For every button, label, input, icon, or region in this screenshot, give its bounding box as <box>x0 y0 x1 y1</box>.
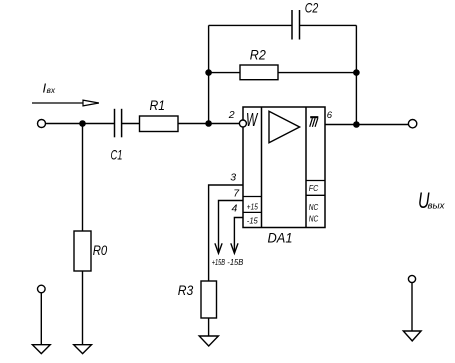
ground (bottom right) <box>403 331 421 341</box>
wire (R2 left) <box>209 72 240 74</box>
resistor R0 <box>74 231 91 271</box>
ground (R0) <box>74 345 92 354</box>
svg-text:R3: R3 <box>178 282 194 298</box>
svg-text:3: 3 <box>230 171 236 183</box>
svg-text:-15В: -15В <box>227 257 243 267</box>
op-amp left column cell lines <box>243 197 262 213</box>
label -15 (supply cell) <box>247 216 258 226</box>
op-amp right column cell lines <box>306 181 325 196</box>
label R3 <box>178 282 194 298</box>
input terminal <box>38 120 46 128</box>
svg-text:C1: C1 <box>111 147 123 163</box>
svg-text:2: 2 <box>228 109 235 121</box>
label NC (lower) <box>309 214 319 224</box>
svg-text:NC: NC <box>309 202 319 212</box>
node (output junction) <box>353 121 360 128</box>
svg-text:-15: -15 <box>247 216 258 226</box>
svg-text:+15: +15 <box>247 201 258 211</box>
svg-text:W: W <box>246 110 259 130</box>
label Ivx <box>43 81 57 96</box>
node B (summing junction) <box>205 120 212 127</box>
ground (bottom left) <box>32 345 50 354</box>
output symbol m <box>310 117 319 127</box>
common terminal (bottom right) <box>408 275 415 282</box>
capacitor C1 <box>115 109 122 138</box>
svg-text:+15В: +15В <box>212 257 226 267</box>
svg-text:NC: NC <box>309 214 319 224</box>
label R2 <box>250 46 266 62</box>
wire <box>411 283 413 331</box>
pin 4 wire <box>234 218 243 254</box>
svg-text:R0: R0 <box>93 242 108 258</box>
pin 2 label <box>228 109 235 121</box>
wire <box>122 123 140 125</box>
svg-text:вх: вх <box>47 86 57 95</box>
node (R2 left junction) <box>205 69 212 76</box>
svg-text:C2: C2 <box>305 0 319 16</box>
label NC (upper) <box>309 202 319 212</box>
ground (R3) <box>199 336 218 346</box>
label -15V <box>227 257 243 267</box>
common terminal (bottom left) <box>38 285 46 293</box>
svg-text:DA1: DA1 <box>268 230 293 246</box>
op-amp triangle <box>269 111 300 142</box>
svg-text:4: 4 <box>232 202 238 214</box>
wire (R0 branch) <box>82 124 84 232</box>
label +15V <box>212 257 226 267</box>
wire <box>208 318 210 336</box>
pin 6 wire (output) <box>325 124 408 126</box>
svg-text:FC: FC <box>309 183 319 193</box>
label FC <box>309 183 319 193</box>
resistor R2 <box>240 65 278 80</box>
label R0 <box>93 242 108 258</box>
wire <box>82 271 84 345</box>
pin 7 supply arrowhead <box>215 243 222 253</box>
wire (right vertical net) <box>355 25 357 124</box>
pin 4 label <box>232 202 238 214</box>
label C2 <box>305 0 319 16</box>
capacitor C2 <box>292 10 300 40</box>
wire (left vertical net) <box>208 25 210 123</box>
label DA1 <box>268 230 293 246</box>
label R1 <box>150 97 166 113</box>
resistor R1 <box>140 116 179 132</box>
node (R2 right junction) <box>353 69 360 76</box>
pin 4 supply arrowhead <box>231 243 238 253</box>
pin 7 wire <box>219 201 244 254</box>
wire <box>178 123 240 125</box>
wire (C2 top left) <box>209 24 292 26</box>
node A (input junction) <box>79 120 86 127</box>
svg-text:6: 6 <box>327 110 333 121</box>
pin 2 inverting input circle <box>239 120 246 127</box>
resistor R3 <box>201 281 217 318</box>
wire <box>40 293 42 345</box>
label C1 <box>111 147 123 163</box>
svg-text:вых: вых <box>428 201 446 211</box>
wire (R2 right) <box>278 72 356 74</box>
label Uout <box>418 188 445 213</box>
pin 6 label <box>327 110 333 121</box>
current arrow <box>32 100 99 106</box>
pin 3 label <box>230 171 236 183</box>
wire (C2 top right) <box>300 24 357 26</box>
wire <box>46 123 115 125</box>
svg-text:R1: R1 <box>150 97 166 113</box>
op-amp U1 body <box>243 107 325 228</box>
pin 7 label <box>233 187 240 199</box>
output terminal <box>408 120 416 128</box>
pin 3 wire <box>209 185 243 281</box>
label +15 (supply cell) <box>247 201 258 211</box>
label W (gain symbol) <box>246 110 259 130</box>
svg-text:R2: R2 <box>250 46 266 62</box>
